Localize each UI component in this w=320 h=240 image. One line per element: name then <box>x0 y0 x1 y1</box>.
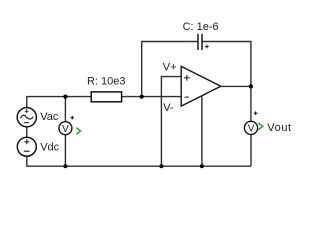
wire: op-amp output to node C <box>221 85 251 87</box>
wire: node A to resistor left terminal <box>65 96 91 98</box>
junction dot: op-amp ground pin on rail <box>200 164 204 168</box>
svg-text:C: 1e-6: C: 1e-6 <box>183 21 219 33</box>
op-amp U1 triangle <box>181 66 221 106</box>
wire: between Vac and Vdc sources <box>26 127 28 137</box>
Vac internal plus <box>25 109 29 113</box>
svg-text:V-: V- <box>163 102 174 114</box>
output voltmeter polarity plus <box>254 111 258 115</box>
Vac internal minus <box>24 122 29 124</box>
op-amp non-inverting + glyph <box>184 75 190 81</box>
node B junction dot <box>140 95 144 99</box>
svg-text:R: 10e3: R: 10e3 <box>87 75 126 87</box>
op-amp inverting - glyph <box>185 96 189 98</box>
wire: left voltmeter bottom to ground rail <box>64 135 66 166</box>
Vdc internal plus <box>24 139 29 144</box>
Vdc internal minus <box>24 150 30 152</box>
voltage source Vac body <box>17 108 36 127</box>
svg-text:V: V <box>62 124 69 135</box>
svg-text:Vac: Vac <box>40 111 59 123</box>
svg-text:Vout: Vout <box>267 122 291 134</box>
junction dot: left voltmeter branch on rail <box>63 164 67 168</box>
terminal tick: output voltmeter top lead <box>250 106 252 108</box>
output voltmeter green probe arrow <box>258 123 263 130</box>
capacitor C left plate <box>197 34 199 50</box>
wire: resistor right terminal to node B <box>122 96 142 98</box>
svg-text:V+: V+ <box>163 61 177 73</box>
wire: source top lead up and across to node A <box>27 97 66 108</box>
node A junction dot <box>63 95 67 99</box>
left voltmeter green probe arrow <box>76 128 80 135</box>
node C (output) junction dot <box>249 84 253 88</box>
capacitor C right plate <box>201 34 203 50</box>
resistor R body <box>91 92 121 102</box>
voltage source Vdc body <box>17 137 36 156</box>
wire: capacitor right plate across and down to output node C <box>202 42 251 87</box>
terminal tick: capacitor left lead <box>191 41 193 43</box>
left voltmeter VM1 body <box>59 122 72 135</box>
wire: op-amp ground pin down to rail <box>201 96 203 166</box>
wire: node B to op-amp inverting input <box>142 96 182 98</box>
wire: op-amp non-inverting input left and down to ground rail <box>161 77 181 167</box>
wire: feedback riser from node B up to capacitor row <box>142 42 198 97</box>
wire: node A down to left voltmeter top <box>64 97 66 122</box>
terminal tick: resistor right lead <box>126 96 128 98</box>
output voltmeter Vout body <box>244 121 257 134</box>
left voltmeter polarity plus <box>71 116 75 120</box>
svg-text:V: V <box>248 124 255 135</box>
wire: output voltmeter bottom to ground rail <box>250 135 252 167</box>
terminal tick: op-amp + input lead <box>176 76 178 78</box>
svg-text:Vdc: Vdc <box>40 141 59 153</box>
wire: bottom ground rail <box>27 156 251 166</box>
terminal tick: resistor left lead <box>85 96 87 98</box>
Vac sine wave <box>20 115 33 119</box>
junction dot: V+ ground tie on rail <box>159 164 163 168</box>
capacitor polarity plus <box>205 45 209 49</box>
wire: node C down to output voltmeter top <box>250 86 252 121</box>
